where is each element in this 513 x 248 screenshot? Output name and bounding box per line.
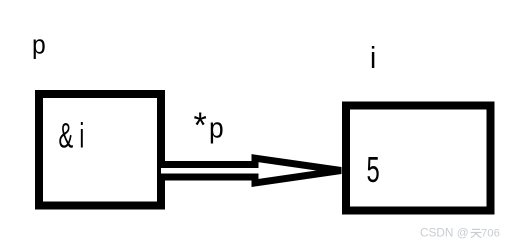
watermark CSDN @	[420, 226, 500, 240]
svg-text:i: i	[370, 41, 376, 76]
svg-text:& i: & i	[59, 118, 85, 156]
svg-text:5: 5	[367, 150, 380, 190]
svg-text:*: *	[194, 106, 208, 146]
box p (left square)	[39, 94, 161, 206]
watermark 天 glyph	[471, 229, 482, 237]
svg-text:p: p	[32, 31, 46, 60]
wire arrow *p (hollow block arrow from box p to box i)	[161, 158, 341, 183]
svg-text:p: p	[209, 111, 224, 143]
svg-text:CSDN @: CSDN @	[420, 226, 469, 240]
svg-text:706: 706	[481, 228, 500, 240]
box i (right rectangle)	[346, 106, 491, 211]
